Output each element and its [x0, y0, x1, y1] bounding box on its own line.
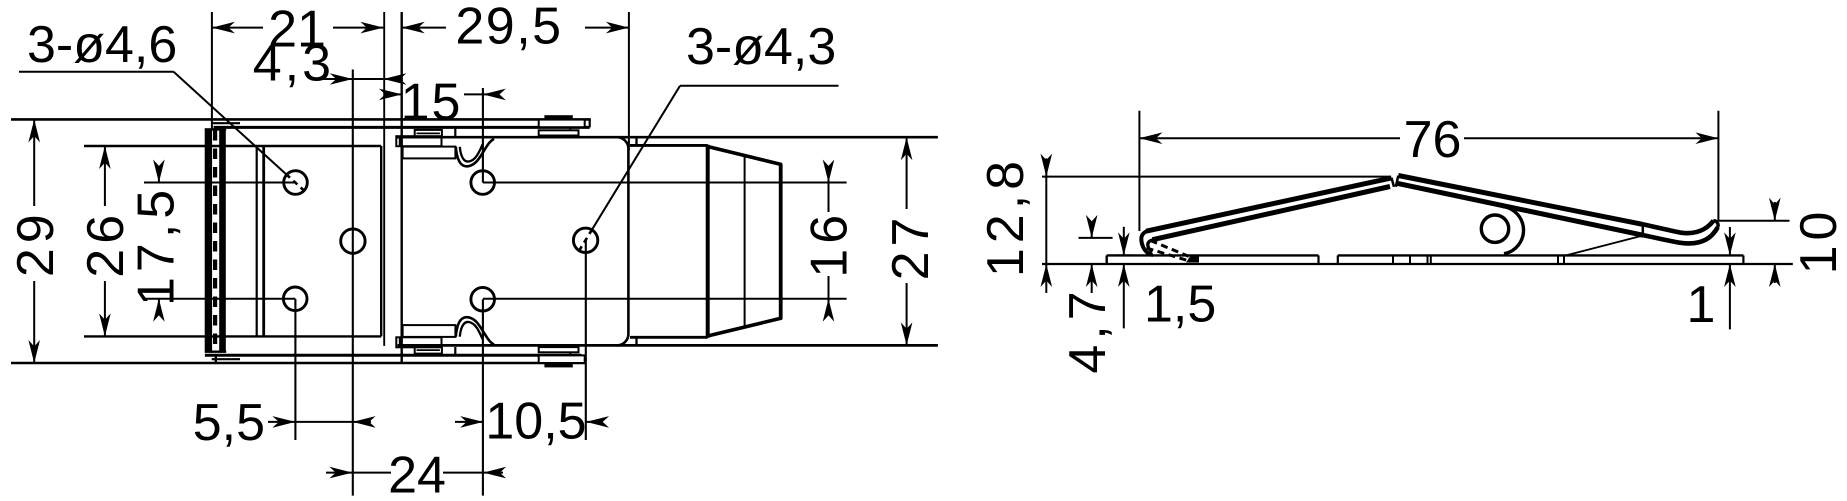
dim 15 left arrow (outside)	[379, 89, 402, 101]
hole body top (o4,3)	[471, 171, 495, 195]
dim 15 tail right	[483, 93, 500, 95]
base plate step b	[1337, 255, 1339, 264]
svg-text:17,5: 17,5	[128, 185, 186, 306]
hook plate left edge stub top	[635, 137, 637, 145]
dim 12,8 top ext line to apex	[1042, 176, 1390, 178]
dim 29 line top segment	[33, 119, 35, 206]
dim 1,5 top arrow (outside)	[1118, 232, 1130, 255]
dim 24 right arrow (outside)	[483, 467, 506, 479]
leader 3-o4,3 underline	[680, 85, 839, 87]
dim 21 right arrow	[360, 22, 383, 34]
dim 1,5 top tail	[1123, 227, 1125, 256]
dim 5,5 line	[295, 421, 352, 423]
lever tip outer curve	[1141, 230, 1153, 255]
base plate tick 2	[1409, 255, 1411, 264]
dim 76 left ext line	[1138, 111, 1140, 231]
hinge strip top edge	[205, 128, 226, 130]
dim 1 bottom tail	[1729, 264, 1731, 329]
body left edge / 29,5 left ext	[401, 12, 403, 363]
dim 4,3 tail left	[322, 78, 353, 80]
dim 4,7 bottom tail	[1091, 264, 1093, 293]
dim 21 left ext line	[211, 12, 213, 129]
dim 5,5 tail right	[353, 421, 371, 423]
dim 21 line right segment	[333, 27, 383, 29]
keeper plate left bend line	[256, 146, 258, 336]
hole body bottom (o4,3)	[471, 287, 495, 311]
dim 4,7 top tail	[1091, 223, 1093, 238]
clip tab B top	[403, 147, 456, 159]
base plate top edge right segment	[1338, 254, 1744, 256]
clip S-hook outer bottom	[456, 317, 494, 344]
dim 15 tail left	[384, 93, 402, 95]
dim 76 line right segment	[1464, 137, 1718, 139]
rivet head black bottom	[544, 363, 572, 368]
svg-text:10,5: 10,5	[485, 393, 586, 451]
base plate tick 3b	[1430, 255, 1432, 264]
dim 29,5 right arrow	[606, 22, 629, 34]
dim 29,5 right ext line	[628, 12, 630, 150]
tip wedge	[1186, 257, 1199, 263]
leader 3-o4,3 dashes through hole	[578, 229, 593, 253]
leader 3-o4,3 diagonal	[592, 86, 680, 230]
dim 27 line bottom segment	[906, 283, 908, 345]
dim 29,5 line left segment	[402, 27, 446, 29]
svg-text:1: 1	[1687, 276, 1716, 334]
body bottom edge (27 bottom ext)	[398, 344, 938, 347]
base plate tick 4a	[1557, 255, 1559, 264]
lever right arm outer line	[1398, 176, 1642, 225]
trapezoid bend line	[744, 156, 746, 327]
lever left arm outer line	[1146, 178, 1392, 231]
dim 26 line bottom segment	[104, 281, 106, 336]
bottom edge step a	[581, 355, 583, 359]
base plate tick 1	[1392, 255, 1394, 264]
dim 5,5 left arrow (outside)	[272, 416, 295, 428]
hole body middle (o4,3)	[573, 228, 597, 252]
clip small tab bottom	[415, 347, 442, 354]
dim 4,7 top ext line	[1079, 237, 1113, 239]
dim 24 left arrow (outside)	[329, 467, 352, 479]
bottom hole row centerline right (16 bottom ext)	[483, 298, 847, 300]
dim 24 line left segment	[352, 472, 391, 474]
base plate tick 4b	[1563, 255, 1565, 264]
svg-text:4,7: 4,7	[1059, 286, 1117, 373]
top hole row centerline left (17,5 top ext)	[144, 182, 295, 184]
clip small tab inner line	[417, 132, 440, 134]
clip S-hook inner bottom	[460, 322, 483, 339]
dim 4,7 bottom arrow (outside)	[1086, 264, 1098, 287]
dim 29 bottom arrow	[28, 340, 40, 363]
clip S-hook inner top	[460, 144, 483, 161]
spring plate rounded right edge	[617, 137, 629, 345]
leader 3-o4,6 diagonal	[174, 72, 286, 174]
base plate left end	[1105, 255, 1107, 264]
dim 10,5 tail left	[455, 421, 483, 423]
dim 26 line top segment	[104, 146, 106, 206]
bottom edge line 1 (29 bottom ext)	[11, 362, 585, 365]
clip S-hook outer top	[456, 139, 494, 166]
rivet bottom tab tick	[569, 352, 571, 356]
dim 16 top arrow (outside)	[823, 160, 835, 183]
dim 16 top tail	[828, 169, 830, 183]
trapezoid left edge	[706, 145, 710, 338]
dim 1,5 bottom arrow (outside)	[1118, 264, 1130, 287]
dim 10,5 tail right	[586, 421, 603, 423]
clip tab A top	[396, 136, 441, 146]
dim 17,5 bottom arrow (outside)	[153, 299, 165, 322]
dim 26 top arrow	[99, 146, 111, 169]
dim 4,3 tail right	[383, 78, 401, 80]
pivot hole circle	[1481, 215, 1508, 242]
clip tab B bottom	[403, 325, 456, 337]
dim 17,5 bottom tail	[158, 299, 160, 313]
dim 24 line right segment	[443, 472, 483, 474]
dim 16 line bottom segment	[828, 276, 830, 299]
dim 15 right arrow (outside)	[483, 89, 506, 101]
top edge line 1 (29 top ext)	[11, 118, 591, 121]
leader 3-o4,6 dashes through hole	[286, 174, 307, 193]
dim 76 right ext line	[1717, 111, 1719, 221]
clip end tick	[1642, 224, 1645, 237]
svg-text:16: 16	[801, 210, 859, 278]
hole keeper top (o4,6)	[284, 171, 308, 195]
svg-text:10: 10	[1790, 207, 1847, 275]
dim 12,8 line	[1045, 177, 1047, 264]
apex notch left	[1392, 178, 1395, 187]
dim 21 left arrow	[212, 22, 235, 34]
hinge pin dashed line	[213, 130, 217, 352]
lever tip inner curve	[1148, 240, 1154, 252]
ext line from middle-right hole (10,5 right)	[585, 240, 587, 440]
hinge strip outer bar	[205, 128, 212, 352]
clip stub vertical top	[454, 128, 456, 137]
dim 17,5 top arrow (outside)	[153, 160, 165, 183]
svg-text:5,5: 5,5	[193, 394, 265, 452]
hole keeper middle (o4,6)	[341, 229, 365, 253]
clip small tab top	[415, 130, 442, 137]
plate top bend line (26 top ext)	[84, 145, 381, 147]
dim 10,5 left arrow (outside)	[460, 416, 483, 428]
ground line / base bottom edge	[1042, 263, 1793, 265]
dim 27 top arrow	[901, 137, 913, 160]
hook plate bottom edge	[630, 336, 708, 339]
svg-text:3-ø4,6: 3-ø4,6	[27, 16, 177, 74]
svg-text:15: 15	[401, 74, 463, 132]
ext line x=383 (21 right / 4,3 right)	[383, 12, 385, 346]
trapezoid right edge	[779, 164, 783, 319]
top edge right step	[589, 119, 591, 127]
hinge top step line	[212, 122, 240, 124]
hinge strip inner bar	[219, 128, 226, 352]
bottom hole row centerline left (17,5 bottom ext)	[144, 298, 295, 300]
dim 10 top tail	[1774, 202, 1776, 221]
base plate step a	[1317, 255, 1319, 264]
dim 1,5 bottom tail	[1123, 264, 1125, 328]
lever left arm inner line	[1153, 187, 1391, 240]
base plate right end	[1742, 255, 1744, 264]
tip dashed line upper	[1151, 241, 1198, 260]
dim 10 bottom arrow (outside)	[1769, 264, 1781, 287]
dim 10 top arrow (outside)	[1769, 198, 1781, 221]
top hole row centerline right (16 top ext)	[483, 182, 847, 184]
dim 10,5 right arrow (outside)	[586, 416, 609, 428]
dim 76 left arrow	[1139, 132, 1162, 144]
dim 29 line bottom segment	[33, 281, 35, 363]
bottom edge line 2	[205, 354, 582, 357]
dim 10 top ext line	[1718, 220, 1789, 222]
dim 1 bottom arrow (outside)	[1724, 264, 1736, 287]
dim 17,5 top tail	[158, 169, 160, 183]
hinge bottom step tick	[215, 355, 217, 363]
dim 21 line left segment	[212, 27, 263, 29]
hole keeper bottom (o4,6)	[283, 287, 307, 311]
svg-text:29,5: 29,5	[455, 0, 562, 56]
svg-text:76: 76	[1404, 111, 1462, 169]
dim 24 tail left	[326, 472, 352, 474]
rivet tab white top	[539, 120, 585, 128]
tip dashed line lower	[1147, 248, 1189, 261]
rivet head black top	[544, 115, 572, 120]
svg-text:12,8: 12,8	[977, 156, 1035, 277]
dim 27 line top segment	[906, 137, 908, 209]
clip tab A inner left edge	[399, 136, 401, 146]
clip small tab inner line bottom	[417, 349, 440, 351]
dim 4,3 line	[353, 78, 384, 80]
rivet tab lower top	[539, 130, 579, 135]
dim 76 right arrow	[1695, 132, 1718, 144]
trapezoid bottom slant	[707, 318, 782, 336]
svg-text:26: 26	[77, 210, 135, 278]
hook lower surface	[1644, 227, 1718, 243]
hook tip cap	[1714, 221, 1719, 228]
svg-text:29: 29	[7, 209, 65, 277]
dim 29,5 line right segment	[585, 27, 629, 29]
dim 16 line top segment	[828, 183, 830, 213]
dim 5,5 tail left	[268, 421, 295, 423]
rivet tab lower bottom	[539, 347, 579, 352]
thin diagonal strut	[1566, 236, 1643, 256]
dim 16 bottom arrow (outside)	[823, 299, 835, 322]
hook plate top edge	[630, 144, 708, 147]
svg-text:24: 24	[388, 446, 446, 501]
column line x=483 lower segment (from bottom hole, 24 right ext)	[482, 299, 484, 495]
dim 12,8 top tail	[1045, 158, 1047, 176]
dim 29,5 left arrow	[402, 22, 425, 34]
dim 4,7 top arrow (outside)	[1086, 215, 1098, 238]
base plate tick 3a	[1427, 255, 1429, 264]
rivet top tab tick	[569, 127, 571, 130]
keeper plate right edge	[380, 146, 382, 336]
dim 5,5 right arrow (outside)	[353, 416, 376, 428]
plate bottom bend line (26 bottom ext)	[84, 335, 381, 337]
column line x=483 upper segment (15 ext to top hole)	[482, 88, 484, 183]
dim 24 tail right	[483, 472, 503, 474]
hook plate left edge stub bottom	[635, 337, 637, 345]
lever right arm inner line	[1397, 183, 1644, 235]
svg-text:4,3: 4,3	[253, 35, 334, 93]
keeper plate left edge	[262, 146, 265, 336]
dim 15 line segment	[464, 93, 483, 95]
hinge bottom step line	[212, 358, 240, 360]
hinge strip bottom edge	[205, 351, 226, 353]
trapezoid top slant	[707, 146, 782, 164]
dim 10 bottom tail	[1774, 264, 1776, 283]
dim 12,8 top arrow (outside)	[1041, 154, 1053, 177]
svg-text:1,5: 1,5	[1144, 276, 1216, 334]
dim 76 line left segment	[1139, 137, 1400, 139]
svg-text:27: 27	[882, 213, 940, 281]
dim 16 bottom tail	[828, 299, 830, 313]
clip tab A inner left edge bottom	[399, 337, 401, 347]
hook upper surface	[1643, 221, 1714, 234]
apex notch right	[1396, 176, 1399, 187]
dim 12,8 bottom tail	[1045, 264, 1047, 293]
clip tab A bottom	[396, 337, 441, 347]
bottom edge step b	[584, 359, 586, 363]
dim 4,3 right arrow (outside)	[383, 73, 406, 85]
dim 27 bottom arrow	[901, 322, 913, 345]
dim 29 top arrow	[28, 119, 40, 142]
pivot knuckle arc	[1502, 206, 1524, 254]
leader 3-o4,6 underline	[19, 71, 174, 73]
base plate top edge left segment	[1107, 254, 1319, 256]
clip stub vertical bottom	[454, 347, 456, 356]
center column line x=353 (4,3 left / 24 left ext)	[352, 70, 354, 496]
top edge line 2	[214, 126, 590, 129]
dim 1 top tail	[1729, 227, 1731, 255]
dim 1,5 top ext line	[1115, 254, 1132, 256]
rivet tab white bottom	[539, 355, 585, 363]
body top edge (27 top ext)	[396, 136, 938, 139]
svg-text:3-ø4,3: 3-ø4,3	[686, 18, 836, 76]
ext line from bottom-left hole (5,5 left)	[294, 299, 296, 440]
dim 12,8 bottom arrow (outside)	[1041, 264, 1053, 287]
dim 1 top arrow (outside)	[1724, 232, 1736, 255]
dim 4,3 left arrow (outside)	[330, 73, 353, 85]
dim 26 bottom arrow	[99, 313, 111, 336]
